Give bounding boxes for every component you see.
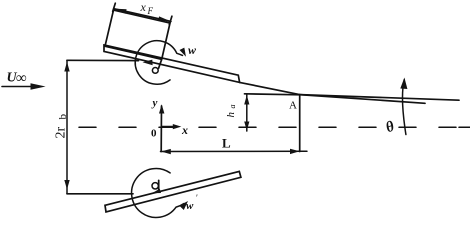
rotation arc around lower pivot	[132, 168, 184, 217]
svg-text:h: h	[225, 112, 237, 118]
line plate end to point A	[240, 82, 300, 94]
x axis	[162, 126, 175, 128]
arrowhead up (2r_b top)	[64, 62, 69, 72]
thin plate (lower foil)	[105, 171, 241, 212]
arrowhead theta arc	[400, 78, 407, 90]
svg-text:2r: 2r	[54, 127, 69, 139]
extension line from A down to L dimension	[299, 96, 301, 152]
arrowhead down (2r_b bottom)	[64, 180, 69, 190]
label x_F	[140, 0, 154, 16]
small arrow at lower pivot	[152, 189, 161, 193]
svg-text:′: ′	[196, 193, 198, 203]
label h_a (rotated)	[225, 105, 237, 118]
dashed centerline	[79, 126, 470, 128]
rotation arc around upper pivot	[135, 41, 182, 85]
svg-text:L: L	[222, 136, 231, 151]
h dimension vertical line	[246, 94, 248, 131]
thin plate (upper foil)	[104, 45, 240, 82]
small arrow at upper pivot	[143, 60, 153, 66]
svg-text:w: w	[186, 200, 194, 212]
pivot circle (upper)	[152, 68, 158, 74]
L dimension line	[161, 150, 308, 152]
svg-text:0: 0	[151, 128, 157, 140]
tick at right corner of x_F	[169, 16, 172, 24]
theta arc	[402, 80, 405, 135]
top horizontal line from 2r_b corner	[67, 59, 139, 61]
svg-text:x: x	[181, 123, 188, 137]
arrowhead up (h top)	[244, 95, 249, 105]
svg-text:∞: ∞	[16, 71, 27, 87]
svg-text:x: x	[140, 0, 147, 14]
arrowhead left (x_F)	[114, 9, 127, 14]
horizontal reference line to A (top of h dimension)	[245, 94, 301, 95]
wake line A to right (short, lower)	[300, 95, 426, 104]
svg-text:θ: θ	[384, 119, 397, 137]
dimension 2r_b vertical line	[66, 60, 68, 194]
svg-text:w: w	[188, 43, 197, 57]
bottom horizontal line from 2r_b corner	[67, 193, 133, 195]
svg-text:a: a	[228, 105, 237, 109]
centerline final dash at right edge	[459, 126, 470, 128]
label U-infinity	[7, 71, 28, 87]
arrowhead of rotation arc w	[180, 48, 187, 57]
arrowhead of rotation arc w'	[179, 201, 188, 210]
arrowhead left (L)	[161, 149, 171, 154]
dimension x_F line	[114, 9, 171, 22]
tick at left corner of x_F	[113, 3, 116, 11]
svg-text:F: F	[147, 6, 154, 16]
svg-text:b: b	[57, 114, 69, 120]
pivot circle (lower)	[152, 183, 158, 189]
y axis	[160, 106, 162, 152]
arrowhead x axis	[173, 124, 182, 129]
svg-text:A: A	[289, 100, 297, 112]
arrowhead y axis	[159, 104, 164, 113]
flap rectangle (forward plate)	[105, 10, 170, 59]
arrow U-infinity (free stream velocity)	[2, 86, 33, 88]
arrowhead right (x_F)	[158, 16, 171, 21]
arrowhead down (h bottom)	[244, 122, 249, 131]
wake line A to right (long)	[300, 95, 460, 101]
svg-text:y: y	[151, 97, 158, 109]
label 2r_b (rotated)	[54, 114, 70, 139]
label w'	[186, 193, 198, 212]
pivot stem (flap right edge extension)	[159, 59, 162, 68]
pivot stem (lower)	[158, 180, 160, 191]
arrowhead right (L)	[290, 149, 300, 154]
